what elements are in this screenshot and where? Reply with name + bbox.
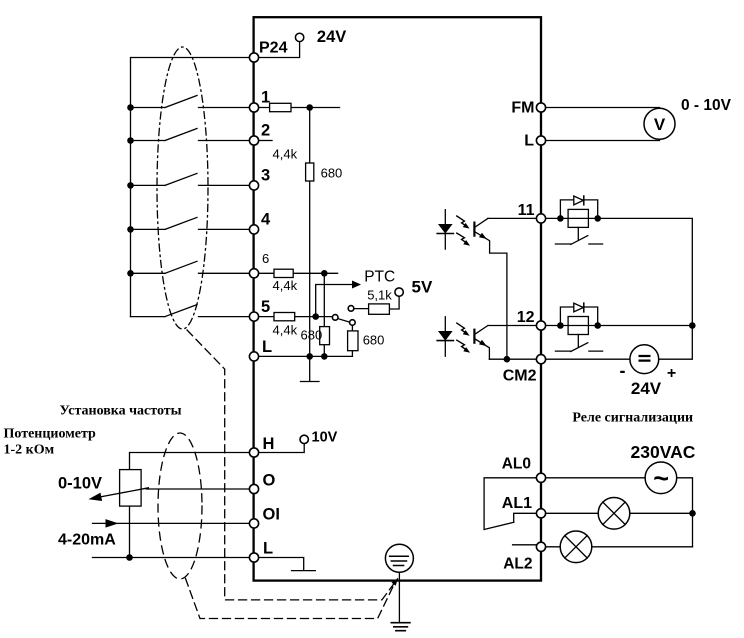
- svg-text:PTC: PTC: [364, 269, 395, 286]
- svg-text:V: V: [654, 115, 666, 134]
- svg-text:1: 1: [261, 89, 270, 107]
- svg-text:0 - 10V: 0 - 10V: [681, 97, 732, 114]
- svg-text:OI: OI: [263, 506, 280, 524]
- svg-text:24V: 24V: [631, 379, 662, 398]
- svg-text:4-20mA: 4-20mA: [58, 532, 116, 549]
- svg-text:L: L: [524, 133, 534, 150]
- svg-text:P24: P24: [259, 40, 288, 57]
- svg-text:0-10V: 0-10V: [58, 475, 102, 493]
- svg-text:Установка частоты: Установка частоты: [60, 404, 182, 419]
- svg-text:+: +: [667, 365, 676, 382]
- svg-text:4,4k: 4,4k: [273, 278, 298, 293]
- svg-text:6: 6: [262, 251, 269, 266]
- svg-text:11: 11: [518, 202, 535, 219]
- svg-text:Реле сигнализации: Реле сигнализации: [572, 411, 693, 426]
- svg-text:2: 2: [261, 122, 270, 140]
- svg-text:5V: 5V: [412, 278, 433, 297]
- svg-text:O: O: [263, 472, 276, 490]
- svg-text:4,4k: 4,4k: [273, 323, 298, 338]
- svg-text:5,1k: 5,1k: [367, 288, 392, 303]
- svg-text:AL2: AL2: [503, 556, 532, 573]
- svg-text:24V: 24V: [317, 28, 346, 46]
- svg-text:5: 5: [261, 298, 270, 316]
- svg-text:4,4k: 4,4k: [273, 147, 298, 162]
- svg-text:-: -: [620, 361, 626, 381]
- svg-text:3: 3: [261, 167, 270, 185]
- svg-text:4: 4: [261, 211, 271, 229]
- svg-text:AL0: AL0: [502, 456, 531, 473]
- svg-text:10V: 10V: [312, 430, 338, 446]
- svg-text:AL1: AL1: [502, 495, 532, 512]
- svg-text:L: L: [263, 540, 273, 558]
- svg-text:Потенциометр: Потенциометр: [4, 427, 97, 442]
- svg-text:680: 680: [321, 166, 343, 181]
- svg-text:680: 680: [301, 328, 323, 343]
- svg-text:1-2 кОм: 1-2 кОм: [4, 443, 55, 458]
- svg-text:L: L: [262, 338, 272, 356]
- svg-text:FM: FM: [511, 100, 534, 117]
- svg-text:~: ~: [653, 464, 669, 494]
- svg-text:230VAC: 230VAC: [631, 442, 696, 462]
- svg-text:H: H: [263, 435, 275, 453]
- svg-text:CM2: CM2: [503, 368, 537, 385]
- svg-text:12: 12: [517, 309, 535, 326]
- svg-text:680: 680: [363, 333, 385, 348]
